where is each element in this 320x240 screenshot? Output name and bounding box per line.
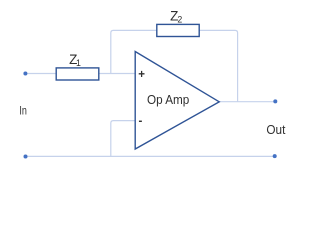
wire: Z1 to op-amp + input	[99, 73, 135, 75]
node In (input terminal dot)	[23, 72, 27, 76]
svg-text:Out: Out	[266, 122, 285, 137]
node: bottom-left rail terminal	[24, 155, 28, 159]
wire: - input stub bending down to bottom rail	[111, 121, 135, 157]
svg-text:Op Amp: Op Amp	[147, 92, 189, 107]
svg-text:-: -	[139, 116, 143, 128]
impedance Z2 (box)	[157, 24, 199, 36]
wire: feedback from Z2 left side, bending down to + input junction	[111, 30, 157, 73]
wire: op-amp output to Out node	[219, 101, 275, 103]
op-amp U1 (triangle)	[135, 52, 219, 150]
wire: Z2 right side bending down to output node	[199, 30, 237, 101]
node Out (output terminal dot)	[273, 99, 277, 103]
wire: bottom common rail	[26, 155, 275, 157]
svg-text:1: 1	[76, 58, 81, 68]
impedance Z1 (box)	[56, 68, 99, 80]
node: bottom-right rail terminal	[273, 154, 277, 158]
svg-text:2: 2	[177, 15, 182, 25]
svg-text:+: +	[138, 69, 145, 81]
wire: In node to Z1	[25, 73, 56, 75]
svg-text:In: In	[19, 103, 27, 117]
